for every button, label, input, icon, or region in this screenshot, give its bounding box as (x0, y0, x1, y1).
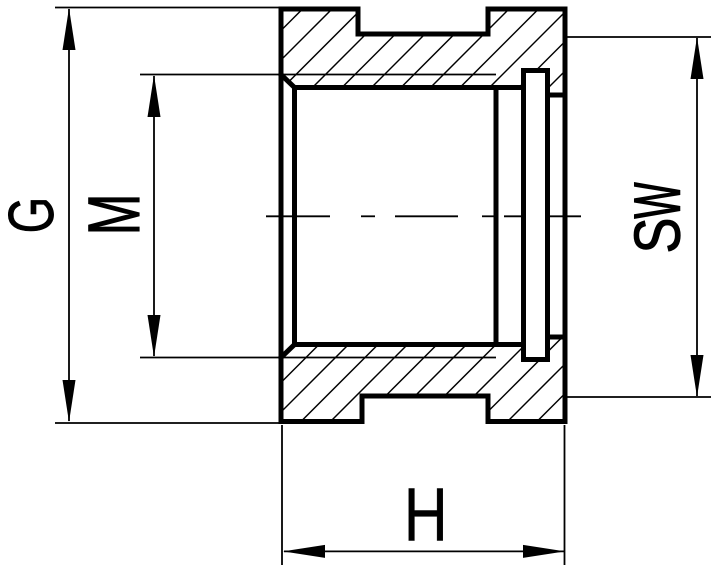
svg-text:W: W (621, 182, 694, 218)
svg-text:S: S (621, 218, 694, 254)
svg-text:H: H (404, 473, 448, 557)
svg-text:M: M (74, 194, 155, 236)
svg-text:G: G (0, 197, 67, 234)
